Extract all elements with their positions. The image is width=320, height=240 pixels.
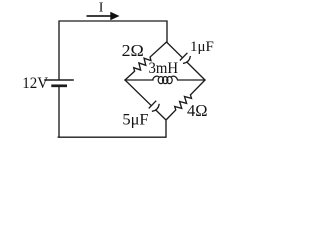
svg-text:3mH: 3mH: [149, 59, 179, 77]
svg-text:4Ω: 4Ω: [187, 101, 208, 120]
svg-text:12V: 12V: [22, 75, 48, 92]
svg-text:5μF: 5μF: [122, 111, 148, 128]
svg-text:1μF: 1μF: [190, 39, 214, 55]
svg-text:I: I: [99, 0, 104, 15]
svg-text:2Ω: 2Ω: [122, 41, 144, 60]
